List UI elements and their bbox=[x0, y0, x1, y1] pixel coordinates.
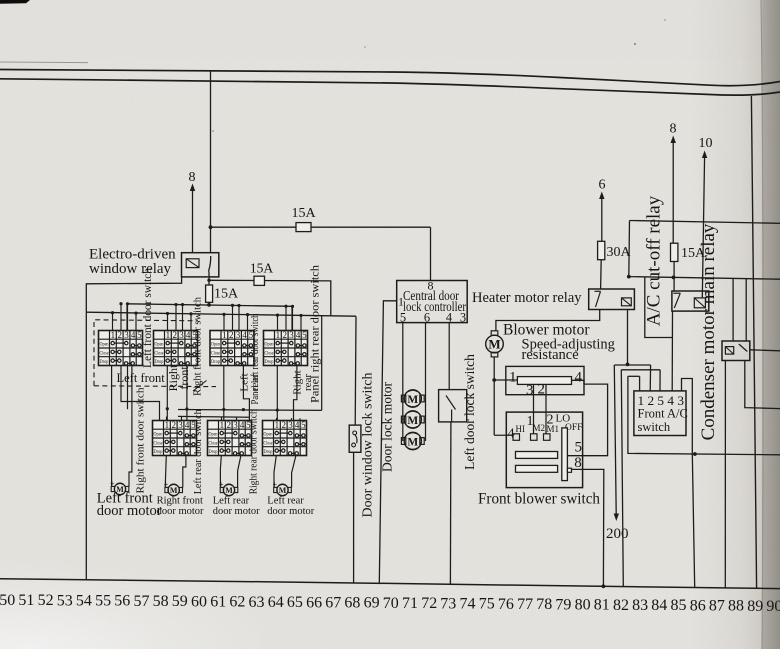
riser row2 bus to H2 bbox=[321, 316, 323, 411]
svg-text:switch: switch bbox=[638, 420, 671, 434]
svg-text:Right front door switch: Right front door switch bbox=[135, 387, 147, 494]
terminal squares bbox=[513, 434, 520, 441]
fuse 15A on window-switch wire bbox=[254, 276, 265, 285]
wire motor into terminal 4 bbox=[494, 434, 513, 436]
svg-text:Right front door switch: Right front door switch bbox=[193, 296, 204, 396]
wire relay to front A/C pin4 bbox=[671, 311, 673, 391]
relay condenser motor main bbox=[732, 278, 734, 341]
svg-text:6: 6 bbox=[424, 310, 430, 324]
row2 buses bbox=[178, 409, 322, 412]
svg-text:200: 200 bbox=[606, 526, 629, 542]
wire relay bottom-left down left edge bbox=[86, 276, 181, 580]
svg-text:61: 61 bbox=[210, 594, 226, 611]
svg-text:64: 64 bbox=[268, 594, 284, 611]
page edge line right bbox=[761, 0, 763, 649]
wire condenser blade right exit bbox=[750, 350, 780, 351]
svg-text:87: 87 bbox=[709, 598, 725, 615]
svg-text:62: 62 bbox=[229, 594, 245, 611]
wire to ruler bbox=[449, 422, 452, 584]
pin3 wire over to right bbox=[682, 379, 693, 454]
wire lock switch to ruler bbox=[353, 452, 355, 583]
switch right front door lower bbox=[153, 420, 197, 455]
svg-text:78: 78 bbox=[536, 596, 552, 613]
svg-text:Left rear: Left rear bbox=[213, 496, 250, 507]
svg-text:86: 86 bbox=[690, 597, 706, 614]
svg-text:door motor: door motor bbox=[213, 506, 260, 517]
svg-text:Condenser motor main relay: Condenser motor main relay bbox=[698, 223, 719, 440]
svg-text:5: 5 bbox=[400, 310, 406, 324]
fuse 15A vertical below relay bbox=[208, 271, 210, 285]
controller central door lock bbox=[397, 281, 468, 323]
label right front rotated bbox=[166, 364, 191, 391]
wire drop from top rail bbox=[210, 71, 212, 253]
switch door window lock bbox=[349, 425, 361, 452]
svg-text:66: 66 bbox=[306, 594, 322, 611]
svg-text:80: 80 bbox=[575, 596, 591, 613]
scanner black mark top-left bbox=[0, 0, 30, 4]
wire condenser relay out bbox=[745, 361, 780, 409]
svg-text:Right rear door switch: Right rear door switch bbox=[248, 409, 259, 495]
svg-text:M1: M1 bbox=[547, 424, 560, 434]
svg-text:+: + bbox=[273, 480, 278, 489]
dashed group box left front bbox=[94, 320, 198, 386]
resistor legs bbox=[533, 384, 535, 433]
svg-text:54: 54 bbox=[76, 592, 92, 609]
svg-text:15A: 15A bbox=[250, 261, 274, 276]
svg-text:5: 5 bbox=[575, 440, 583, 456]
svg-text:77: 77 bbox=[517, 596, 533, 613]
svg-text:Door window lock switch: Door window lock switch bbox=[360, 372, 375, 517]
svg-text:58: 58 bbox=[153, 593, 169, 610]
motor left rear door bbox=[220, 484, 238, 495]
motor left front door bbox=[111, 483, 129, 494]
switch front A/C bbox=[634, 391, 686, 436]
bus H2 big box top bbox=[86, 312, 356, 316]
svg-text:Left front: Left front bbox=[117, 371, 166, 385]
long vertical right bbox=[751, 96, 756, 588]
wire pin1 to ruler bbox=[379, 301, 396, 584]
svg-text:door motor: door motor bbox=[97, 503, 162, 519]
svg-text:74: 74 bbox=[460, 596, 476, 613]
svg-text:window relay: window relay bbox=[89, 261, 172, 277]
ruler baseline bbox=[0, 579, 780, 589]
svg-text:84: 84 bbox=[651, 597, 667, 614]
svg-text:15A: 15A bbox=[291, 206, 316, 221]
svg-text:door motor: door motor bbox=[267, 506, 314, 517]
svg-text:Left front door switch: Left front door switch bbox=[140, 268, 154, 368]
svg-text:71: 71 bbox=[402, 595, 418, 612]
wires row2 blocks to motors bbox=[165, 456, 166, 488]
motor door lock x3 bbox=[401, 390, 424, 407]
fuse 30A bbox=[598, 241, 605, 259]
bus y221 bbox=[630, 221, 780, 224]
svg-text:Right front: Right front bbox=[157, 496, 203, 507]
inter-row wires bbox=[111, 366, 113, 487]
svg-text:76: 76 bbox=[498, 596, 514, 613]
svg-text:8: 8 bbox=[189, 170, 196, 185]
svg-text:rear: rear bbox=[249, 374, 261, 391]
relay K electro-driven window bbox=[182, 253, 219, 277]
svg-text:Front blower switch: Front blower switch bbox=[478, 491, 600, 508]
svg-text:73: 73 bbox=[440, 595, 456, 612]
svg-text:68: 68 bbox=[344, 595, 360, 612]
svg-text:door motor: door motor bbox=[157, 506, 204, 517]
svg-text:Left door lock switch: Left door lock switch bbox=[462, 354, 477, 470]
harness legs into row1 switch blocks bbox=[112, 313, 114, 331]
svg-text:Left rear door switch: Left rear door switch bbox=[193, 409, 204, 495]
svg-text:50: 50 bbox=[0, 592, 15, 609]
svg-text:72: 72 bbox=[421, 595, 437, 612]
wire H2 right end to lock switch bbox=[354, 316, 357, 425]
fuse 15A right bbox=[671, 243, 678, 261]
svg-text:67: 67 bbox=[325, 594, 341, 611]
svg-text:30A: 30A bbox=[607, 245, 632, 260]
wire relay to door window lock switch bbox=[209, 280, 331, 315]
svg-text:65: 65 bbox=[287, 594, 303, 611]
svg-text:3: 3 bbox=[460, 310, 466, 324]
svg-text:4: 4 bbox=[446, 310, 453, 324]
svg-text:55: 55 bbox=[95, 593, 111, 610]
svg-text:+: + bbox=[164, 480, 169, 489]
svg-text:resistance: resistance bbox=[522, 347, 579, 363]
switch left front door bbox=[99, 330, 143, 365]
svg-text:8: 8 bbox=[670, 122, 677, 137]
svg-text:1: 1 bbox=[398, 295, 404, 309]
relay A/C cut-off bbox=[672, 291, 709, 311]
svg-text:Front A/C: Front A/C bbox=[638, 407, 688, 421]
pointer line bbox=[193, 381, 207, 392]
svg-text:53: 53 bbox=[57, 592, 73, 609]
svg-text:52: 52 bbox=[38, 592, 54, 609]
svg-text:69: 69 bbox=[364, 595, 380, 612]
wire pin4 to left door lock switch bbox=[448, 323, 450, 390]
svg-text:59: 59 bbox=[172, 593, 188, 610]
switch left rear door bbox=[208, 420, 252, 455]
svg-text:15A: 15A bbox=[214, 287, 239, 302]
svg-text:3: 3 bbox=[526, 383, 534, 399]
svg-text:1: 1 bbox=[509, 370, 517, 386]
svg-text:M2: M2 bbox=[533, 423, 546, 433]
svg-text:63: 63 bbox=[249, 594, 265, 611]
wire blower motor down bbox=[493, 357, 495, 435]
wire 4 to switch 5 bracket bbox=[567, 380, 607, 455]
slider bar bbox=[562, 428, 568, 481]
motor right front door bbox=[165, 484, 183, 495]
wire relay to blower motor bbox=[496, 310, 600, 331]
svg-text:lock controller: lock controller bbox=[403, 299, 466, 314]
svg-text:8: 8 bbox=[574, 455, 582, 471]
switch front blower box bbox=[506, 412, 582, 488]
svg-text:57: 57 bbox=[134, 593, 150, 610]
H1 end drops bbox=[126, 304, 128, 331]
condenser coil wire to ruler bbox=[724, 361, 726, 588]
svg-text:+: + bbox=[110, 479, 115, 488]
svg-text:6: 6 bbox=[599, 178, 606, 193]
svg-text:79: 79 bbox=[555, 596, 571, 613]
svg-text:60: 60 bbox=[191, 593, 207, 610]
svg-text:A/C cut-off relay: A/C cut-off relay bbox=[644, 195, 665, 326]
svg-text:2: 2 bbox=[538, 382, 546, 398]
svg-text:Door lock motor: Door lock motor bbox=[380, 382, 395, 472]
svg-text:88: 88 bbox=[728, 598, 744, 615]
resistor bar bbox=[517, 377, 571, 385]
svg-text:70: 70 bbox=[383, 595, 399, 612]
svg-text:85: 85 bbox=[671, 597, 687, 614]
switch right front door bbox=[154, 330, 198, 365]
svg-text:89: 89 bbox=[747, 598, 763, 615]
switch left door lock bbox=[439, 390, 467, 422]
svg-text:51: 51 bbox=[18, 592, 34, 609]
switch right rear door bbox=[263, 420, 307, 455]
faint cut wire top left bbox=[0, 61, 88, 64]
wires pins 5 and 6 bbox=[402, 323, 404, 441]
motor right rear door (labelled left rear) bbox=[274, 484, 292, 495]
svg-text:HI: HI bbox=[516, 424, 526, 434]
heater relay coil wire down bbox=[627, 310, 629, 365]
wire top rail upper bbox=[0, 70, 780, 86]
svg-text:Heater motor relay: Heater motor relay bbox=[472, 290, 582, 306]
svg-text:front: front bbox=[177, 366, 191, 390]
bus y277 bbox=[629, 277, 780, 280]
switch panel left rear door bbox=[210, 330, 254, 365]
svg-text:M: M bbox=[488, 337, 500, 352]
wire 1 to motor line bbox=[494, 379, 517, 381]
wire 8 to ruler bbox=[572, 469, 604, 586]
bracket wires to front A/C switch bbox=[614, 364, 650, 366]
svg-text:75: 75 bbox=[479, 596, 495, 613]
svg-text:82: 82 bbox=[613, 597, 629, 614]
row2 bus lower bbox=[178, 415, 250, 418]
svg-text:81: 81 bbox=[594, 597, 610, 614]
svg-text:83: 83 bbox=[632, 597, 648, 614]
svg-text:+: + bbox=[219, 480, 224, 489]
bus H1 bbox=[127, 304, 292, 307]
svg-text:10: 10 bbox=[699, 136, 713, 151]
svg-text:rear: rear bbox=[302, 374, 314, 391]
fuse 15A on controller feed bbox=[296, 223, 311, 232]
switch panel right rear door bbox=[264, 330, 308, 365]
svg-text:4: 4 bbox=[575, 370, 583, 386]
wire top rail lower bbox=[0, 79, 780, 95]
svg-text:Left rear: Left rear bbox=[267, 496, 304, 507]
svg-text:56: 56 bbox=[114, 593, 130, 610]
wire 15A branch to central controller bbox=[211, 226, 431, 228]
svg-text:90: 90 bbox=[766, 598, 780, 615]
